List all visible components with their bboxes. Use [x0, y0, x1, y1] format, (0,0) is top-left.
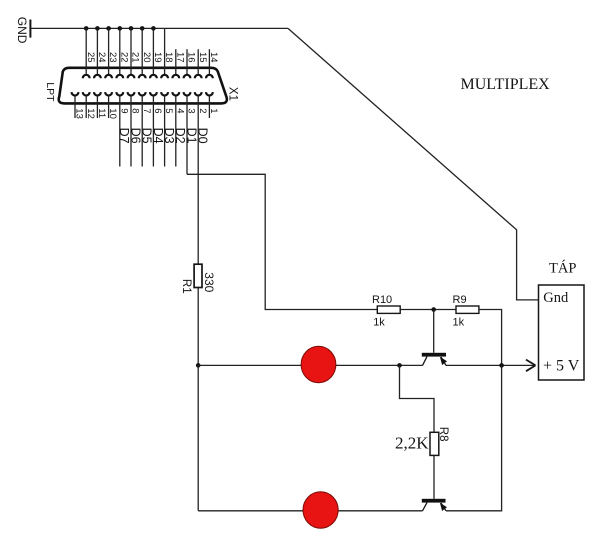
svg-text:25: 25: [85, 52, 96, 63]
pin 16 (top): [184, 49, 197, 78]
svg-text:R10: R10: [372, 294, 392, 306]
transistor Q1: [422, 353, 447, 366]
wire Q1 emitter to R8: [400, 365, 435, 432]
wire LED2 rail: [198, 510, 422, 512]
svg-text:1k: 1k: [373, 317, 385, 329]
transistor Q2: [422, 499, 447, 511]
pin 15 (top): [195, 49, 208, 78]
wire R9 to +5V column: [479, 310, 502, 366]
svg-text:3: 3: [186, 108, 197, 113]
wire R1 to LED rail: [197, 288, 199, 366]
wire GND horizontal bus: [31, 27, 288, 29]
pin 21 (top): [128, 28, 141, 78]
pin 12 (bottom): [83, 92, 96, 119]
pin 7 (bottom): [139, 92, 152, 166]
svg-text:7: 7: [141, 108, 152, 113]
pin 23 (top): [105, 28, 118, 78]
pin 6 (bottom): [150, 92, 163, 166]
svg-text:GND: GND: [15, 17, 29, 44]
svg-text:330: 330: [202, 272, 216, 292]
svg-text:D0: D0: [196, 128, 210, 144]
junction pin 21 to GND: [129, 26, 134, 31]
pin 2 (bottom): [195, 92, 208, 166]
LED 1 red: [301, 346, 336, 382]
pin 24 (top): [94, 28, 107, 78]
wire D0 net to R1: [197, 167, 199, 265]
pin 9 (bottom): [116, 92, 129, 166]
svg-text:10: 10: [107, 108, 118, 119]
resistor R9 body: [456, 306, 479, 313]
pin 1 (bottom): [206, 92, 219, 118]
svg-text:24: 24: [96, 52, 107, 63]
svg-text:22: 22: [118, 52, 129, 63]
svg-text:1: 1: [208, 108, 219, 113]
wire R10 to R9: [400, 309, 456, 311]
junction pin 22 to GND: [118, 26, 123, 31]
junction pin 23 to GND: [106, 26, 111, 31]
svg-text:Gnd: Gnd: [543, 290, 569, 306]
pin 25 (top): [83, 28, 96, 78]
svg-text:16: 16: [186, 52, 197, 63]
wire GND diagonal to TAP box: [288, 28, 539, 300]
LED 2 red: [303, 492, 338, 528]
wire R8 to Q2 base: [433, 455, 435, 498]
svg-text:18: 18: [163, 52, 174, 63]
svg-text:8: 8: [130, 108, 141, 113]
pin 20 (top): [139, 28, 152, 78]
svg-text:MULTIPLEX: MULTIPLEX: [461, 76, 551, 93]
resistor R10 body: [377, 306, 400, 313]
junction +5V column node: [499, 363, 504, 368]
TAP power box: [539, 285, 585, 380]
junction Q1 emitter node: [397, 363, 402, 368]
junction pin 25 to GND: [84, 26, 89, 31]
svg-text:R1: R1: [180, 279, 192, 294]
svg-text:R8: R8: [437, 427, 449, 442]
resistor R1 body: [194, 264, 202, 287]
junction pin 20 to GND: [140, 26, 145, 31]
junction LED rail node: [196, 363, 201, 368]
svg-text:13: 13: [74, 108, 85, 119]
pin 14 (top): [206, 49, 219, 78]
pin 22 (top): [116, 28, 129, 78]
svg-text:21: 21: [130, 52, 141, 63]
wire LED1 rail: [198, 364, 422, 366]
pin 5 (bottom): [161, 92, 174, 166]
svg-text:23: 23: [107, 52, 118, 63]
svg-text:X1: X1: [226, 87, 238, 101]
svg-text:15: 15: [197, 52, 208, 63]
wire +5V down to Q2 collector: [446, 365, 502, 510]
connector X1 DB25 body: [59, 68, 227, 104]
pin 4 (bottom): [172, 92, 185, 166]
pin 8 (bottom): [128, 92, 141, 166]
svg-text:2: 2: [197, 108, 208, 113]
pin 11 (bottom): [94, 92, 107, 118]
wire +5V rail: [446, 364, 535, 366]
wire Q1 base: [433, 310, 435, 353]
svg-text:9: 9: [118, 108, 129, 113]
resistor R8 body: [430, 432, 439, 455]
pin 18 (top): [161, 28, 174, 78]
svg-text:R9: R9: [453, 294, 467, 306]
arrow into +5V: [526, 360, 536, 372]
svg-text:20: 20: [141, 52, 152, 63]
svg-text:6: 6: [152, 108, 163, 113]
svg-text:5: 5: [163, 108, 174, 113]
wire D1 net to R10: [187, 174, 377, 309]
ground symbol GND: [15, 17, 30, 44]
wire down to LED2 rail: [197, 365, 199, 510]
svg-text:2,2K: 2,2K: [395, 434, 429, 453]
svg-text:12: 12: [85, 108, 96, 119]
svg-text:17: 17: [174, 52, 185, 63]
svg-text:+ 5 V: + 5 V: [543, 357, 580, 374]
junction pin 24 to GND: [95, 26, 100, 31]
svg-text:TÁP: TÁP: [549, 260, 576, 277]
pin 3 (bottom): [184, 92, 197, 174]
pin 17 (top): [172, 49, 185, 78]
svg-text:19: 19: [152, 52, 163, 63]
pin 13 (bottom): [72, 92, 85, 119]
svg-text:4: 4: [174, 108, 185, 113]
svg-text:LPT: LPT: [44, 82, 56, 102]
junction Q1 base node: [431, 307, 436, 312]
pin 10 (bottom): [105, 92, 118, 119]
svg-text:14: 14: [208, 52, 219, 63]
svg-text:11: 11: [96, 108, 107, 118]
pin 19 (top): [150, 28, 163, 78]
svg-text:1k: 1k: [453, 317, 465, 329]
junction pin 19 to GND: [151, 26, 156, 31]
